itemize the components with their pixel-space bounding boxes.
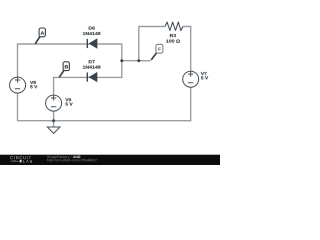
V8 circle: [10, 77, 26, 93]
D6 value label 1N4148: [83, 32, 101, 35]
wire: V8 top lead + node A branch + right bus + node B branch + V9 top lead: [18, 44, 122, 95]
diode D7: [83, 60, 101, 81]
D7 cathode bar: [86, 73, 88, 82]
junction: F node tee on bus: [120, 59, 123, 62]
node B pointer: [59, 70, 64, 77]
R3 value label 100 ohm: [166, 40, 180, 43]
V9 plus and minus marks: [51, 95, 56, 106]
wire: V9 bottom lead + ground stub: [53, 111, 55, 127]
resistor R3: [165, 22, 183, 42]
node A letter: [41, 31, 45, 34]
node F pointer: [151, 53, 156, 60]
V9 designator label: [65, 98, 71, 101]
node B box: [63, 62, 69, 71]
watermark title AND: [73, 156, 80, 158]
D6 designator label: [89, 27, 95, 30]
D6 cathode bar: [86, 39, 88, 48]
wire: R3 riser from F node + R3 left lead: [139, 27, 165, 61]
voltage source V7: [183, 71, 209, 87]
node F: [151, 44, 163, 60]
D7 designator label: [89, 60, 95, 63]
ground: [47, 127, 60, 133]
watermark bar: [0, 155, 220, 165]
V9 value label 5 V: [66, 103, 73, 106]
junction: R3 riser tee on F wire: [137, 59, 140, 62]
node A box: [39, 28, 45, 37]
node B letter: [65, 65, 68, 68]
node B: [59, 62, 69, 78]
R3 zigzag body: [165, 22, 183, 30]
node A pointer: [35, 37, 40, 44]
node F letter: [158, 48, 161, 51]
watermark logo zigzag: [11, 160, 19, 162]
diode D6: [83, 27, 101, 49]
V9 circle: [46, 95, 62, 111]
wire: V7 bottom lead + ground rail + V8 bottom lead: [18, 87, 191, 120]
D6 anode triangle: [90, 39, 97, 48]
watermark logo CIRCUIT: [10, 156, 31, 159]
R3 designator label: [170, 34, 176, 37]
V7 circle: [183, 71, 199, 87]
V8 plus and minus marks: [15, 77, 20, 88]
V8 designator label: [30, 81, 36, 84]
wire: R3 right lead + V7 top lead: [183, 27, 191, 72]
V7 plus and minus marks: [188, 72, 193, 83]
watermark url: [47, 159, 97, 162]
V8 value label 5 V: [30, 85, 37, 88]
junction: V9/ground tee on rail: [52, 119, 55, 122]
V7 value label 5 V: [201, 76, 208, 79]
watermark title: [47, 156, 72, 159]
wire: node F stub from bus to label pointer: [122, 60, 151, 62]
D7 value label 1N4148: [83, 66, 101, 69]
V7 designator label: [201, 72, 207, 75]
node F box: [156, 44, 163, 53]
watermark logo LAB: [23, 160, 32, 163]
watermark logo chip square: [20, 160, 22, 163]
node A: [35, 28, 45, 44]
voltage source V9: [46, 95, 73, 111]
D7 anode triangle: [90, 73, 97, 82]
voltage source V8: [10, 77, 38, 93]
